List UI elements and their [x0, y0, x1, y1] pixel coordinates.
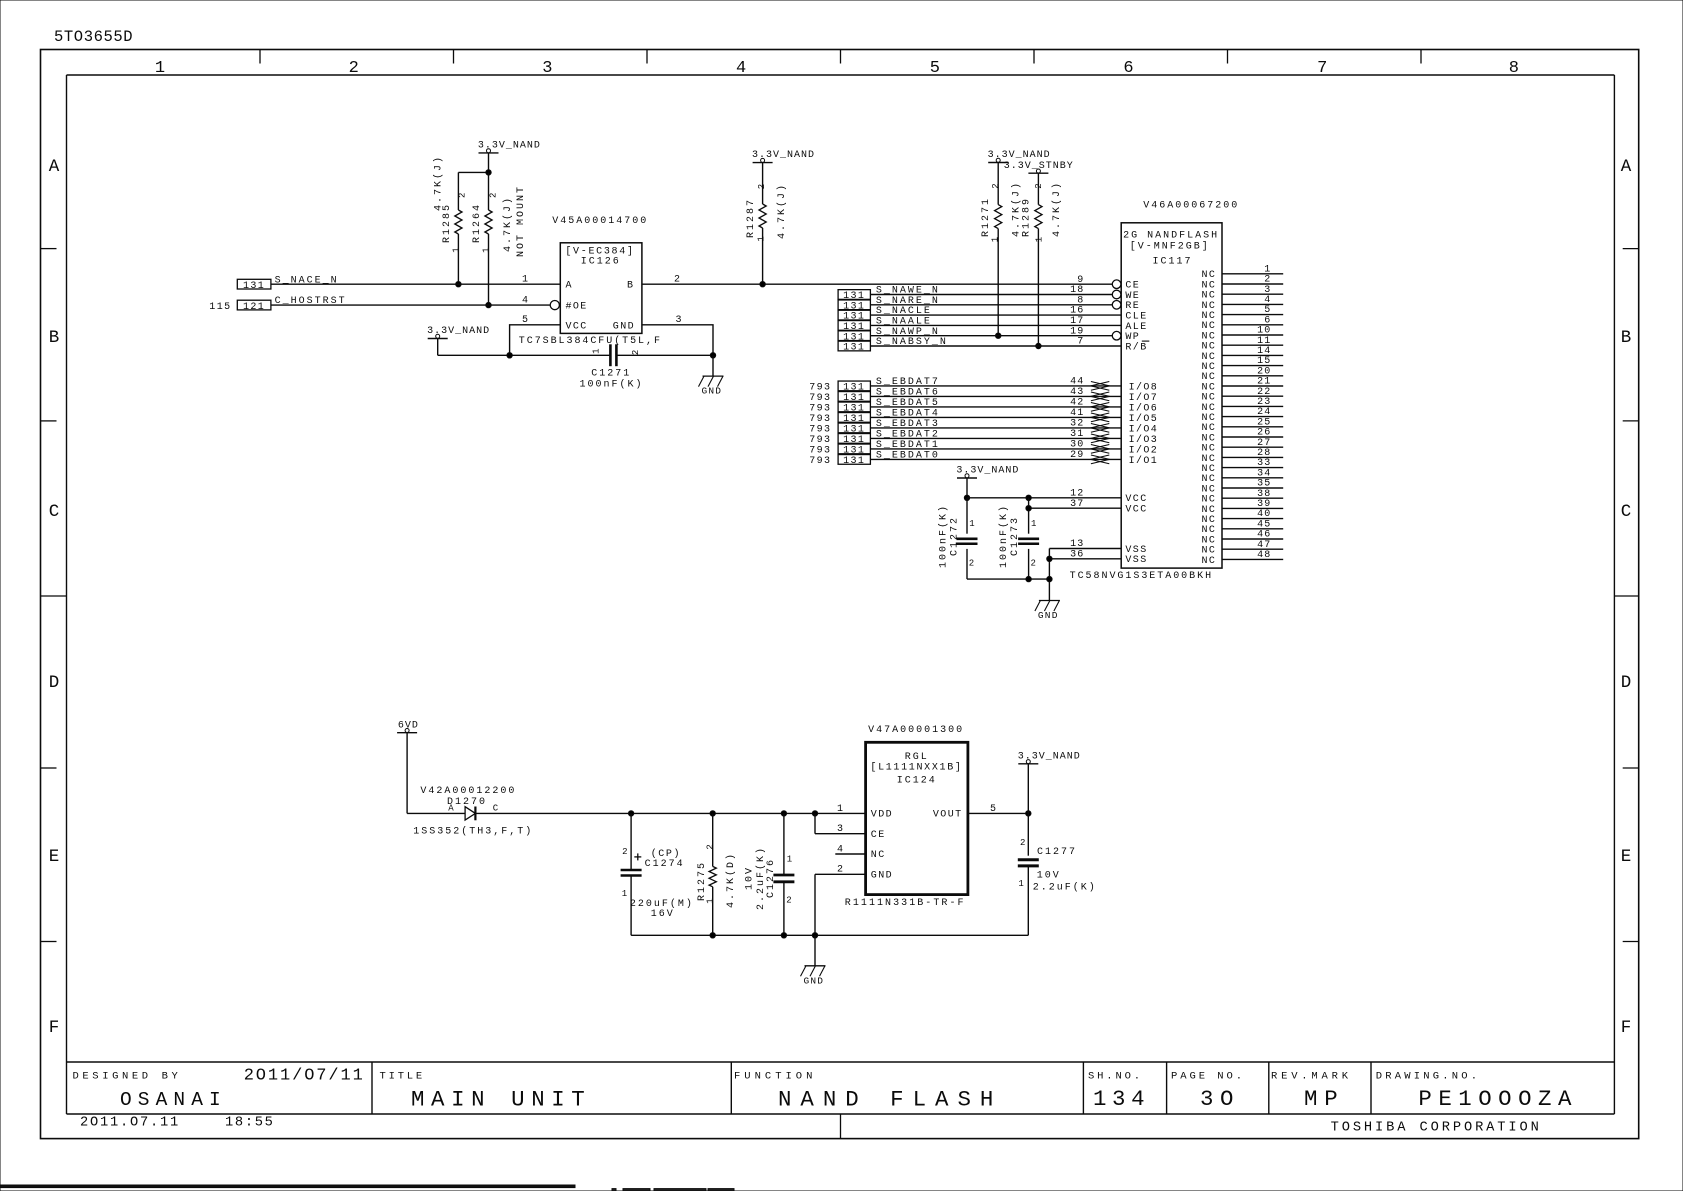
svg-text:100nF(K): 100nF(K)	[938, 504, 950, 568]
IC117 pin R/B number 7	[1077, 337, 1149, 354]
svg-text:IC117: IC117	[1153, 256, 1193, 267]
IC117 pin NC number 21	[1201, 377, 1283, 394]
svg-text:IC124: IC124	[897, 776, 937, 787]
row tick marks right	[1614, 249, 1638, 942]
svg-text:C: C	[1621, 502, 1632, 522]
junction GND rail	[1047, 576, 1052, 581]
svg-text:42: 42	[1070, 398, 1084, 409]
capacitor C1273 100nF(K)	[998, 504, 1039, 579]
svg-text:A: A	[566, 281, 574, 292]
node S_NAALE	[838, 317, 932, 334]
junction C1274	[628, 811, 633, 816]
wire S_NAWP_N to IC117 WP	[870, 335, 1112, 337]
svg-text:6: 6	[1123, 59, 1133, 78]
svg-text:R1289: R1289	[1022, 197, 1033, 237]
svg-text:FUNCTION: FUNCTION	[734, 1071, 816, 1083]
svg-text:C1271: C1271	[591, 369, 631, 380]
svg-text:2: 2	[969, 559, 976, 569]
svg-text:R/B: R/B	[1125, 341, 1147, 353]
svg-text:I/O4: I/O4	[1129, 423, 1159, 435]
power 3.3V_NAND	[1018, 751, 1081, 763]
svg-text:TITLE: TITLE	[380, 1071, 426, 1083]
svg-text:36: 36	[1070, 549, 1084, 560]
svg-text:C1272: C1272	[949, 516, 960, 556]
svg-text:I/O1: I/O1	[1129, 455, 1159, 467]
svg-text:100nF(K): 100nF(K)	[998, 504, 1010, 568]
node C_HOSTRST	[209, 296, 346, 313]
svg-text:#OE: #OE	[566, 302, 588, 313]
power 3.3V_NAND	[956, 466, 1019, 478]
svg-text:B: B	[49, 328, 60, 348]
IC117 pin NC number 34	[1201, 468, 1283, 485]
svg-text:5: 5	[522, 315, 530, 326]
row labels A-F left	[49, 157, 60, 1038]
wire 6VD to diode	[407, 733, 465, 814]
svg-text:2O11.O7.11: 2O11.O7.11	[80, 1116, 180, 1131]
svg-text:C1276: C1276	[766, 858, 777, 898]
IC117 pin I/O4 number 32 bidir	[1070, 419, 1158, 436]
svg-text:C: C	[493, 804, 500, 814]
capacitor C1271 100nF(K)	[580, 344, 644, 390]
power 3.3V_STNBY	[1004, 161, 1074, 173]
node S_EBDAT2	[809, 430, 940, 447]
node S_NAWP_N	[838, 327, 940, 344]
svg-text:29: 29	[1070, 450, 1084, 461]
svg-text:E: E	[49, 847, 60, 867]
svg-text:GND: GND	[613, 322, 635, 333]
IC117 pin ALE number 17	[1070, 316, 1148, 333]
IC117 pin I/O2 number 30 bidir	[1070, 440, 1158, 457]
IC117 pin NC number 45	[1201, 519, 1283, 536]
svg-text:1: 1	[969, 519, 976, 529]
wire S_NABSY_N to IC117 R/B	[870, 345, 1121, 347]
svg-text:NOT MOUNT: NOT MOUNT	[516, 185, 527, 257]
ground GND at IC117	[1035, 601, 1060, 622]
node S_EBDAT1	[809, 440, 940, 457]
svg-text:1: 1	[705, 896, 715, 903]
wire S_NAWE_N to IC117 WE	[870, 294, 1112, 296]
svg-text:2: 2	[786, 896, 793, 906]
capacitor C1272 100nF(K)	[938, 498, 978, 579]
IC117 pin VCC 37	[1070, 499, 1148, 516]
svg-text:I/O7: I/O7	[1129, 392, 1159, 404]
wire cap bottom rail	[967, 578, 1049, 580]
svg-text:E: E	[1621, 847, 1632, 867]
resistor R1285 4.7K(J)	[432, 155, 467, 284]
scan artifact fragments	[612, 1189, 734, 1191]
IC117 pin VCC 12	[1070, 488, 1148, 505]
IC117 pin NC number 39	[1201, 499, 1283, 516]
svg-text:TC58NVG1S3ETA00BKH: TC58NVG1S3ETA00BKH	[1070, 571, 1213, 582]
svg-text:1: 1	[757, 234, 767, 241]
svg-text:R1287: R1287	[746, 198, 757, 238]
svg-text:31: 31	[1070, 429, 1084, 440]
wire C1273 to VCC pin 37	[1029, 498, 1122, 534]
row tick marks left	[41, 249, 67, 942]
svg-text:B: B	[627, 281, 635, 292]
junction C1276	[781, 811, 786, 816]
svg-text:2: 2	[457, 191, 467, 198]
wire S_EBDAT3 to IC117 I/O4	[870, 427, 1121, 429]
svg-text:TOSHIBA CORPORATION: TOSHIBA CORPORATION	[1331, 1121, 1542, 1136]
node S_NACLE	[838, 306, 932, 323]
junction C1276 bottom	[781, 933, 786, 938]
svg-text:GND: GND	[871, 871, 893, 882]
svg-text:1: 1	[622, 889, 629, 899]
svg-text:D: D	[49, 673, 60, 693]
junction VCC rail	[964, 495, 969, 500]
svg-text:IC126: IC126	[581, 257, 621, 268]
wire S_NARE_N to IC117 RE	[870, 304, 1112, 306]
svg-text:2.2uF(K): 2.2uF(K)	[1033, 882, 1097, 894]
svg-text:2: 2	[991, 181, 1001, 188]
svg-text:D: D	[1621, 673, 1632, 693]
column tick marks	[260, 50, 1421, 64]
svg-text:2: 2	[757, 182, 767, 189]
svg-text:REV.MARK: REV.MARK	[1271, 1071, 1352, 1083]
svg-text:R1111N331B-TR-F: R1111N331B-TR-F	[845, 898, 966, 909]
wire S_EBDAT7 to IC117 I/O8	[870, 385, 1121, 387]
svg-text:10V: 10V	[1037, 871, 1061, 882]
IC117 pin NC number 1	[1201, 264, 1283, 281]
svg-text:C1277: C1277	[1037, 847, 1077, 858]
svg-text:100nF(K): 100nF(K)	[580, 379, 644, 391]
resistor R1287 4.7K(J)	[746, 163, 788, 285]
IC117 pin I/O3 number 31 bidir	[1070, 429, 1158, 446]
wire IC126 GND pin 3	[642, 325, 713, 356]
svg-text:4.7K(J): 4.7K(J)	[502, 196, 514, 252]
svg-text:GND: GND	[804, 975, 825, 986]
svg-text:134: 134	[1093, 1086, 1150, 1112]
IC117 pin WE number 18	[1070, 285, 1140, 302]
svg-text:C1274: C1274	[645, 859, 685, 870]
svg-text:VDD: VDD	[871, 810, 893, 821]
svg-text:[L1111NXX1B]: [L1111NXX1B]	[870, 761, 962, 773]
junction C1273 bottom	[1026, 576, 1031, 581]
svg-text:GND: GND	[1038, 610, 1059, 621]
wire diode to IC124 VDD	[475, 812, 865, 814]
junction	[486, 170, 491, 175]
svg-text:1: 1	[991, 235, 1001, 242]
svg-text:2O11/O7/11: 2O11/O7/11	[244, 1067, 365, 1086]
svg-text:DESIGNED BY: DESIGNED BY	[73, 1071, 182, 1083]
IC117 pin NC number 48	[1201, 550, 1283, 567]
svg-text:793: 793	[809, 435, 831, 446]
svg-text:2: 2	[674, 275, 682, 286]
title block captions	[73, 1071, 1481, 1083]
power 3.3V_NAND	[752, 150, 815, 162]
node S_EBDAT3	[809, 419, 940, 436]
junction R1271 on S_NAWP_N	[996, 333, 1001, 338]
svg-text:48: 48	[1257, 550, 1271, 561]
power 3.3V_NAND	[478, 141, 541, 153]
title block	[67, 1062, 1615, 1139]
IC117 pin NC number 22	[1201, 387, 1283, 404]
stub NC pin 4	[835, 844, 865, 855]
svg-text:F: F	[1621, 1018, 1632, 1038]
svg-text:VOUT: VOUT	[933, 810, 963, 821]
IC117 pin I/O8 number 44 bidir	[1070, 377, 1158, 394]
IC117 pin RE number 8	[1077, 295, 1140, 312]
svg-text:131: 131	[843, 456, 865, 467]
svg-text:I/O2: I/O2	[1129, 444, 1159, 456]
resistor R1271 4.7K(J)	[981, 163, 1023, 336]
svg-text:793: 793	[809, 393, 831, 404]
node S_EBDAT5	[809, 398, 940, 415]
svg-text:4.7K(J): 4.7K(J)	[432, 155, 444, 211]
wire power to VOUT node	[1027, 764, 1029, 814]
svg-text:1: 1	[482, 245, 492, 252]
node S_EBDAT4	[809, 409, 940, 426]
power 6VD	[397, 720, 419, 732]
wire GND pin 2	[815, 865, 866, 936]
junction GND stem	[812, 933, 817, 938]
svg-text:VCC: VCC	[566, 321, 588, 332]
svg-text:1: 1	[1018, 879, 1025, 889]
svg-text:7: 7	[1317, 59, 1327, 78]
svg-text:3: 3	[542, 59, 552, 78]
wire S_NACLE to IC117 CLE	[870, 314, 1121, 316]
svg-text:2: 2	[349, 59, 359, 78]
svg-text:SH.NO.: SH.NO.	[1088, 1071, 1143, 1083]
svg-text:2: 2	[489, 191, 499, 198]
wire power to VCC rail	[966, 478, 968, 498]
svg-text:793: 793	[809, 404, 831, 415]
node S_EBDAT0	[809, 451, 940, 468]
wire VOUT to 3.3V_NAND	[968, 812, 1028, 814]
IC117 pin NC number 40	[1201, 509, 1283, 526]
svg-text:793: 793	[809, 456, 831, 467]
IC117 pin I/O6 number 42 bidir	[1070, 398, 1158, 415]
IC117 pin I/O1 number 29 bidir	[1070, 450, 1158, 467]
svg-text:NC: NC	[1201, 556, 1216, 567]
wire S_EBDAT0 to IC117 I/O1	[870, 458, 1121, 460]
IC117 pin CE number 9	[1077, 275, 1140, 292]
svg-text:4: 4	[522, 296, 530, 307]
capacitor C1276 2.2uF(K) 10V	[745, 813, 795, 935]
svg-text:4.7K(D): 4.7K(D)	[725, 852, 737, 908]
wire S_EBDAT4 to IC117 I/O5	[870, 416, 1121, 418]
wire C_HOSTRST to IC126 pin 4 bubble	[271, 304, 550, 306]
resistor R1264 4.7K(J) NOT MOUNT	[472, 172, 527, 305]
IC117 pin WP number 19	[1070, 326, 1140, 343]
svg-text:R1264: R1264	[472, 203, 483, 243]
wire S_EBDAT6 to IC117 I/O7	[870, 395, 1121, 397]
svg-text:A: A	[448, 804, 455, 814]
svg-text:1: 1	[451, 245, 461, 252]
svg-text:1: 1	[522, 275, 530, 286]
IC117 pin NC number 3	[1201, 285, 1283, 302]
svg-text:VCC: VCC	[1125, 505, 1147, 516]
svg-text:131: 131	[243, 281, 265, 292]
svg-text:F: F	[49, 1018, 60, 1038]
inverter bubble IC126 #OE	[550, 301, 559, 310]
svg-text:1: 1	[1031, 519, 1038, 529]
IC117 pin NC number 10	[1201, 326, 1283, 343]
svg-text:7: 7	[1077, 337, 1084, 348]
svg-text:B: B	[1621, 328, 1632, 348]
capacitor C1277 2.2uF(K) 10V	[1018, 813, 1097, 935]
svg-text:A: A	[49, 157, 60, 177]
junction VSS36	[1047, 556, 1052, 561]
svg-text:VCC: VCC	[1125, 494, 1147, 505]
svg-text:220uF(M): 220uF(M)	[630, 898, 694, 910]
wire VSS pins 13 36	[1049, 549, 1121, 601]
svg-text:2: 2	[1020, 838, 1027, 848]
svg-text:V42A00012200: V42A00012200	[420, 786, 516, 797]
svg-text:115: 115	[209, 302, 231, 313]
wire VCC rail pin 12	[967, 497, 1121, 499]
svg-text:I/O5: I/O5	[1129, 413, 1159, 425]
IC117 pin NC number 2	[1201, 275, 1283, 292]
svg-text:1: 1	[155, 59, 165, 78]
svg-text:3: 3	[675, 315, 683, 326]
wire IC126 B to IC117 CE	[642, 283, 1113, 285]
svg-text:2: 2	[622, 847, 629, 857]
IC117 pin I/O5 number 41 bidir	[1070, 408, 1158, 425]
IC117 pin NC number 47	[1201, 540, 1283, 557]
svg-text:2: 2	[837, 865, 845, 876]
op-amp U1 IC126 buffer TC7SBL384	[560, 243, 642, 334]
svg-text:32: 32	[1070, 419, 1084, 430]
svg-text:5TO3655D: 5TO3655D	[54, 28, 133, 46]
IC117 pin NC number 33	[1201, 458, 1283, 475]
svg-text:A: A	[1621, 157, 1632, 177]
junction CE branch	[812, 811, 817, 816]
svg-text:[V-MNF2GB]: [V-MNF2GB]	[1130, 240, 1210, 252]
svg-text:R1271: R1271	[981, 197, 992, 237]
junction VCC37	[1026, 506, 1031, 511]
IC117 pin NC number 6	[1201, 315, 1283, 332]
svg-text:2: 2	[1034, 181, 1044, 188]
svg-text:41: 41	[1070, 408, 1084, 419]
wire ground rail	[631, 934, 1028, 936]
node S_NACE_N	[237, 275, 338, 292]
svg-text:MAIN UNIT: MAIN UNIT	[411, 1087, 591, 1113]
svg-text:PE1OOOZA: PE1OOOZA	[1418, 1086, 1578, 1112]
IC117 pin NC number 28	[1201, 448, 1283, 465]
svg-text:793: 793	[809, 383, 831, 394]
junction VOUT node	[1026, 811, 1031, 816]
wire S_NACE_N to IC126 pin A	[271, 283, 560, 285]
IC117 pin NC number 46	[1201, 530, 1283, 547]
svg-text:793: 793	[809, 425, 831, 436]
svg-text:CE: CE	[871, 830, 886, 841]
IC117 pin VSS 13	[1070, 539, 1148, 556]
svg-text:1: 1	[1035, 235, 1045, 242]
svg-text:R1285: R1285	[442, 203, 453, 243]
junction R1285 on S_NACE_N	[456, 282, 461, 287]
svg-text:1: 1	[787, 855, 794, 865]
scan artifact bar	[0, 1185, 575, 1188]
svg-text:43: 43	[1070, 387, 1084, 398]
svg-text:PAGE NO.: PAGE NO.	[1171, 1071, 1245, 1083]
resistor R1275 4.7K(D)	[697, 813, 737, 935]
IC117 pin NC number 35	[1201, 479, 1283, 496]
pin number 3 CE	[837, 824, 845, 835]
svg-text:V45A00014700: V45A00014700	[552, 216, 648, 227]
IC117 pin NC number 27	[1201, 438, 1283, 455]
svg-text:793: 793	[809, 414, 831, 425]
IC117 pin NC number 5	[1201, 305, 1283, 322]
IC117 pin NC number 24	[1201, 407, 1283, 424]
wire S_EBDAT1 to IC117 I/O2	[870, 448, 1121, 450]
svg-text:NC: NC	[871, 850, 886, 861]
node S_EBDAT6	[809, 388, 940, 405]
svg-text:3O: 3O	[1200, 1086, 1240, 1112]
resistor R1289 4.7K(J)	[1022, 173, 1063, 346]
svg-text:R1275: R1275	[697, 861, 708, 901]
svg-text:18:55: 18:55	[225, 1116, 275, 1131]
2G NANDFLASH IC117 box	[1121, 223, 1222, 568]
svg-text:NAND FLASH: NAND FLASH	[778, 1087, 1002, 1113]
IC117 pin NC number 14	[1201, 346, 1283, 363]
wire CE branch	[815, 813, 866, 833]
IC117 pin NC number 26	[1201, 428, 1283, 445]
svg-text:44: 44	[1070, 377, 1084, 388]
svg-text:V46A00067200: V46A00067200	[1143, 201, 1239, 212]
IC117 pin I/O7 number 43 bidir	[1070, 387, 1158, 404]
svg-text:4: 4	[837, 844, 845, 855]
svg-text:I/O6: I/O6	[1129, 402, 1159, 414]
node S_EBDAT7	[809, 377, 940, 394]
wire 3.3V to C1271 rail	[438, 339, 610, 356]
svg-text:DRAWING.NO.: DRAWING.NO.	[1376, 1071, 1481, 1083]
node S_NABSY_N	[838, 337, 948, 354]
wire C1271 to GND node	[616, 354, 713, 356]
svg-text:793: 793	[809, 446, 831, 457]
svg-text:TC7SBL384CFU(T5L,F: TC7SBL384CFU(T5L,F	[519, 335, 662, 347]
junction R1275 bottom	[710, 933, 715, 938]
svg-text:2G NANDFLASH: 2G NANDFLASH	[1123, 230, 1219, 241]
svg-text:16V: 16V	[651, 909, 675, 920]
svg-text:4: 4	[736, 59, 746, 78]
svg-text:4.7K(J): 4.7K(J)	[776, 183, 788, 239]
svg-text:I/O3: I/O3	[1129, 434, 1159, 446]
IC117 pin VSS 36	[1070, 549, 1148, 566]
IC117 pin NC number 38	[1201, 489, 1283, 506]
wire S_NAALE to IC117 ALE	[870, 324, 1121, 326]
svg-text:10V: 10V	[745, 866, 756, 890]
node S_NARE_N	[838, 296, 940, 313]
junction GND node	[710, 353, 715, 358]
node S_NAWE_N	[838, 286, 940, 303]
svg-text:OSANAI: OSANAI	[120, 1089, 227, 1111]
ground GND at IC124	[814, 935, 816, 966]
svg-text:2: 2	[631, 348, 641, 355]
svg-text:VSS: VSS	[1125, 555, 1147, 566]
junction R1275	[710, 811, 715, 816]
svg-text:MP: MP	[1304, 1086, 1344, 1112]
IC117 pin NC number 4	[1201, 295, 1283, 312]
wire power stem to R1285/R1264	[458, 153, 488, 173]
svg-text:2: 2	[1031, 559, 1038, 569]
IC117 pin NC number 25	[1201, 417, 1283, 434]
power 3.3V_NAND	[427, 326, 490, 338]
IC117 pin NC number 23	[1201, 397, 1283, 414]
svg-text:3: 3	[837, 824, 845, 835]
power 3.3V_NAND	[988, 150, 1051, 162]
svg-text:121: 121	[243, 302, 265, 313]
IC117 pin NC number 15	[1201, 356, 1283, 373]
svg-text:2: 2	[705, 842, 715, 849]
wire S_EBDAT5 to IC117 I/O6	[870, 406, 1121, 408]
junction R1264 on C_HOSTRST	[486, 302, 491, 307]
svg-text:2.2uF(K): 2.2uF(K)	[755, 846, 767, 910]
junction C1273 top	[1026, 495, 1031, 500]
IC117 pin CLE number 16	[1070, 306, 1148, 323]
print date time	[80, 1116, 275, 1131]
